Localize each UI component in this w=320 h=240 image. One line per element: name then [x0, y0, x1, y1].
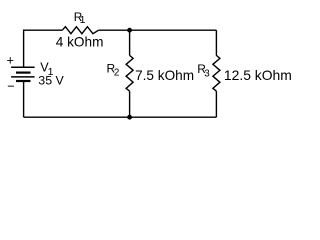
wire: battery positive up and across to R1 [24, 30, 63, 67]
svg-text:2: 2 [114, 68, 119, 79]
wire: R2 branch upper stub [129, 30, 131, 55]
svg-text:3: 3 [204, 69, 210, 80]
svg-text:+: + [7, 52, 14, 67]
battery V1 long plate lower [11, 76, 34, 78]
svg-text:12.5 kOhm: 12.5 kOhm [224, 67, 292, 83]
wire: right side lower [215, 91, 217, 117]
battery V1 short plate bottom [16, 80, 31, 82]
wire: battery negative down to bottom-left corner [23, 81, 25, 117]
svg-text:−: − [7, 79, 14, 94]
resistor R1 [62, 27, 98, 34]
wire: R1 to top-right corner [99, 29, 217, 31]
battery V1 short plate upper [16, 71, 31, 73]
node junction dot top of R2 [127, 28, 132, 33]
wire: bottom return [24, 116, 217, 118]
battery V1 long plate top [11, 66, 34, 68]
wire: right side upper [215, 30, 217, 55]
resistor R2 [126, 55, 133, 91]
node junction dot bottom of R2 [127, 115, 132, 120]
svg-text:1: 1 [80, 14, 86, 26]
svg-text:7.5 kOhm: 7.5 kOhm [135, 68, 194, 83]
svg-text:35 V: 35 V [38, 74, 64, 88]
svg-text:4 kOhm: 4 kOhm [56, 35, 104, 50]
wire: R2 branch lower stub [129, 91, 131, 117]
resistor R3 [213, 55, 220, 91]
